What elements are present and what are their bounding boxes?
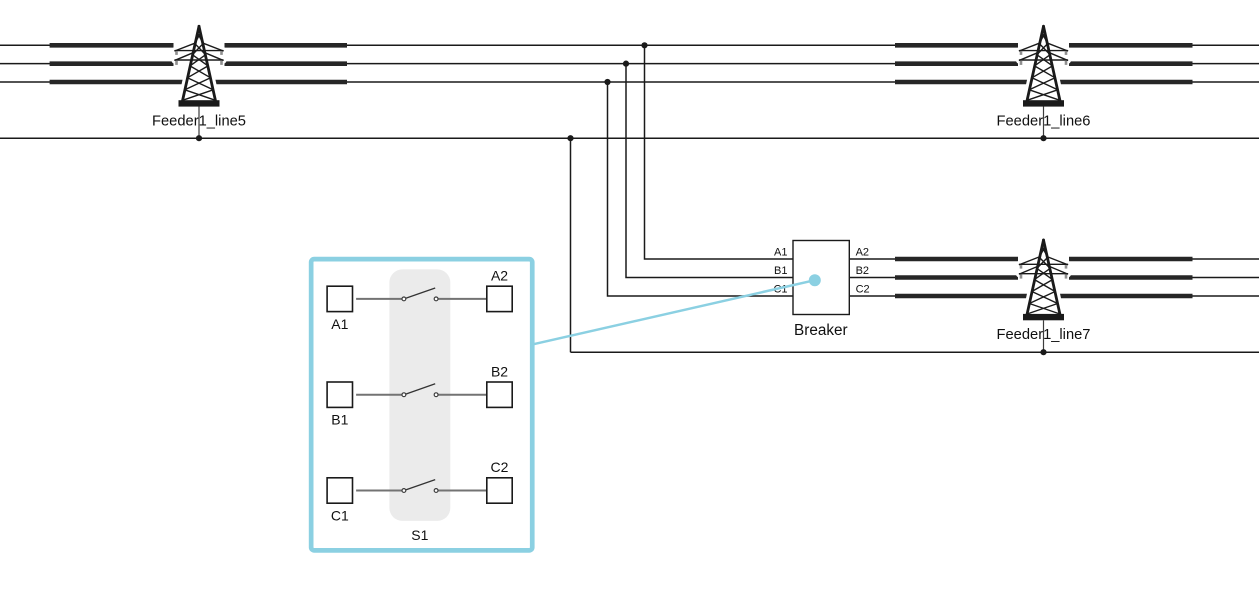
svg-text:C2: C2	[491, 459, 509, 475]
svg-text:C2: C2	[856, 284, 870, 296]
svg-text:Breaker: Breaker	[794, 322, 848, 339]
svg-text:B1: B1	[331, 412, 348, 428]
svg-text:B2: B2	[856, 265, 869, 277]
svg-text:B2: B2	[491, 363, 508, 379]
svg-text:C1: C1	[331, 508, 349, 524]
svg-text:A1: A1	[331, 316, 348, 332]
svg-text:S1: S1	[411, 527, 428, 543]
svg-text:B1: B1	[774, 265, 787, 277]
svg-text:A2: A2	[856, 247, 869, 259]
svg-text:A2: A2	[491, 268, 508, 284]
svg-text:A1: A1	[774, 247, 787, 259]
